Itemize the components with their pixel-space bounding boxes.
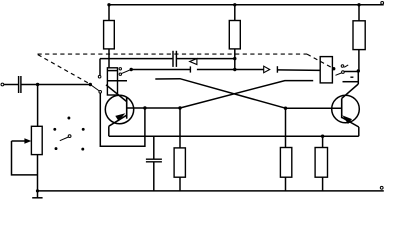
node: base / R4 branch (178, 106, 181, 109)
transistor T2 base bar (341, 98, 343, 118)
wire: lower line into relay K2 (277, 69, 320, 72)
relay coil K2 (right box) (320, 57, 332, 83)
cross-coupling wire A (T1 base to right stub) (180, 81, 313, 108)
connector socket bar (right pair) (276, 66, 278, 73)
transistor T2 body (332, 95, 360, 123)
coil tap line of K1 (107, 80, 127, 82)
switch S1a pivot node (89, 83, 92, 86)
rotary switch S3 wiper arm (60, 135, 71, 141)
switch S2a arm (121, 69, 131, 73)
connector socket bar (left pair) (189, 66, 191, 72)
resistor R5 (280, 108, 291, 191)
wire: T1 base lead (127, 107, 180, 109)
switch S1a moving contact (99, 91, 102, 94)
transistor T1 body (105, 95, 133, 123)
dashed mechanical linkage: horizontal (38, 53, 308, 55)
T2 collector lead diagonal (342, 84, 359, 98)
resistor R6 (315, 136, 327, 191)
wire: coupling line to R2 (upper) (100, 58, 235, 60)
wire: to T2 base (286, 107, 342, 109)
transistor T2 emitter with arrow (342, 115, 359, 127)
node: arm to lower line (130, 68, 133, 71)
rotary switch S3 contact dots (53, 117, 84, 151)
switch S1a moving arm (90, 85, 99, 91)
T1 collector lead diagonal (106, 85, 127, 102)
connector plug arrow (right-pointing) (264, 66, 270, 73)
dashed mechanical linkage: left diagonal (38, 55, 90, 84)
capacitor C3 (emitter bypass) (146, 136, 162, 191)
node: base / switch branch (143, 106, 146, 109)
potentiometer wiper arrow (12, 138, 32, 144)
resistor R4 (174, 108, 185, 191)
transistor T1 emitter with arrow (109, 113, 127, 126)
resistor R3 (353, 5, 365, 71)
dashed mechanical linkage: right diagonal (307, 54, 333, 68)
node: R2 lead / upper line (233, 57, 236, 60)
wire: node down to T2 collector (357, 71, 359, 84)
potentiometer RP1 (31, 126, 42, 154)
wire: wiper loop to bottom of pot (12, 141, 38, 175)
switch S2b auxiliary dash (350, 76, 353, 78)
terminal: input left (1, 83, 4, 86)
wire: junction down to potentiometer (37, 85, 39, 127)
wire: S2b contact to collector node (344, 71, 358, 73)
wire: emitter rail (109, 135, 359, 137)
switch S2b fixed contact stub (344, 65, 348, 67)
switch S2a contacts (right of coil) (119, 68, 121, 76)
relay coil K1 (left box) (107, 68, 117, 95)
wire: pot bottom to ground rail (37, 155, 39, 191)
node: rail-R2 junction (233, 3, 236, 6)
wire: switch S1a contact down and over to T1 base (100, 93, 145, 146)
capacitor C1 (input coupling) (19, 76, 21, 93)
ground symbol (32, 191, 42, 198)
wire: input to switch pivot (4, 84, 91, 86)
node: emitter rail / R6 (321, 135, 324, 138)
node: input junction (36, 83, 39, 86)
switch S1a fixed contact (98, 75, 101, 78)
resistor R1 (104, 5, 115, 68)
bottom ground rail (38, 190, 384, 192)
transistor T1 base bar (126, 97, 128, 119)
node: rail-R3 junction (357, 3, 360, 6)
wire: fixed contact up to line (99, 59, 101, 76)
wire: T2 emitter to emitter rail (358, 127, 360, 136)
cross-coupling wire B (left stub to T2 base) (155, 79, 285, 109)
switch S2b fixed contact (341, 65, 344, 68)
node: rail-R1 junction (107, 3, 110, 6)
terminal: top-right output (381, 2, 384, 5)
wire: T1 emitter down to emitter rail (108, 126, 110, 136)
capacitor C2 (coupling) (173, 51, 176, 67)
wire: lower line (to plug) (131, 69, 190, 71)
resistor R2 (229, 5, 240, 70)
node: T2 base junction (284, 107, 287, 110)
node: linkage end on K2 (332, 67, 335, 70)
switch S2b lower contact line (343, 81, 359, 83)
node: R2 lead / lower line (233, 68, 236, 71)
terminal: bottom-right (380, 186, 383, 189)
top supply rail (109, 4, 384, 6)
wire: lower line middle segment (197, 69, 264, 71)
node: collector / R3 junction (357, 69, 360, 72)
switch S2b moving contact (342, 71, 345, 74)
switch S2b arm (336, 73, 342, 75)
node: ground rail left (36, 189, 39, 192)
connector arrow (left-pointing) on upper line (190, 59, 197, 65)
